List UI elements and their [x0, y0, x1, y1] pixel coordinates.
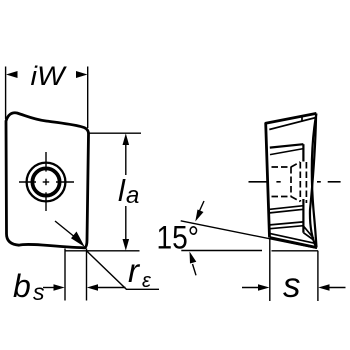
- svg-text:s: s: [283, 266, 301, 305]
- svg-text:iW: iW: [31, 61, 68, 91]
- svg-text:b: b: [13, 268, 31, 304]
- svg-text:ε: ε: [142, 270, 152, 292]
- svg-text:15°: 15°: [157, 220, 200, 256]
- svg-text:a: a: [126, 182, 139, 209]
- svg-text:s: s: [33, 279, 45, 305]
- svg-text:l: l: [118, 173, 126, 208]
